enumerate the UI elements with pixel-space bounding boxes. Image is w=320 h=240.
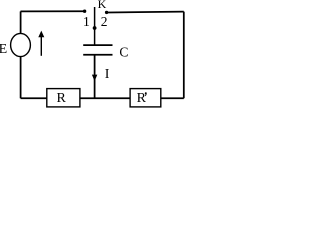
source E circle xyxy=(11,33,31,56)
wire top-right horizontal xyxy=(107,11,184,14)
emf arrow xyxy=(38,31,44,56)
wire right vertical xyxy=(183,12,185,99)
wire left vertical upper xyxy=(20,11,22,33)
resistor R box xyxy=(47,89,80,107)
capacitor C bottom plate xyxy=(83,54,112,56)
wire bottom right xyxy=(161,97,184,99)
svg-text:1: 1 xyxy=(83,15,90,30)
svg-text:E: E xyxy=(0,42,7,57)
node 1 terminal dot xyxy=(83,10,86,13)
wire left vertical lower xyxy=(20,57,22,99)
svg-text:C: C xyxy=(119,45,128,60)
svg-text:2: 2 xyxy=(101,14,108,29)
wire bottom left xyxy=(21,97,47,99)
svg-text:R: R xyxy=(57,91,67,106)
wire top-left horizontal xyxy=(21,10,85,12)
junction dot on lever xyxy=(93,26,97,30)
node 2 terminal dot xyxy=(105,11,108,14)
current arrow I head xyxy=(92,75,97,82)
svg-text:I: I xyxy=(105,67,110,82)
wire bottom middle xyxy=(80,97,130,99)
resistor R' box xyxy=(130,89,161,107)
svg-text:K: K xyxy=(98,0,107,11)
wire capacitor to bottom xyxy=(94,55,96,99)
switch K lever xyxy=(94,7,96,45)
capacitor C top plate xyxy=(83,44,112,46)
